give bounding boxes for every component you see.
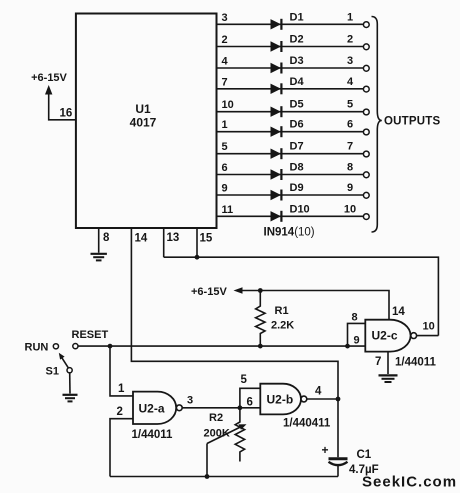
svg-text:9: 9 — [354, 335, 360, 347]
wire supply rail to U2-c pin 14 — [241, 291, 389, 320]
diode D4 — [271, 83, 282, 94]
ground (U2-c pin 7) — [379, 375, 398, 382]
svg-text:9: 9 — [347, 182, 353, 194]
wire bottom rail — [110, 476, 338, 478]
svg-text:D6: D6 — [290, 119, 304, 131]
ground (S1) — [63, 395, 78, 402]
wire RESET net to U2-c pin 9 — [78, 345, 347, 347]
potentiometer R2 — [235, 408, 244, 462]
junction R1 top — [258, 288, 263, 293]
outputs brace — [372, 17, 382, 233]
svg-text:D10: D10 — [290, 203, 310, 215]
wire C1 to bottom rail — [337, 466, 339, 477]
junction pin15/feedback — [195, 255, 200, 260]
wire U1 pin 6 to diode D8 and output 8 — [217, 174, 364, 176]
svg-text:15: 15 — [200, 233, 213, 245]
svg-text:5: 5 — [347, 99, 353, 111]
diode D9 — [271, 190, 282, 201]
svg-text:+6-15V: +6-15V — [191, 286, 227, 298]
wire U1 pin 11 to diode D10 and output 10 — [217, 215, 364, 217]
diode D5 — [271, 106, 282, 117]
output terminal circle 3 — [363, 65, 369, 71]
diode D8 — [271, 169, 282, 180]
svg-text:U1: U1 — [135, 102, 151, 116]
svg-text:2: 2 — [222, 34, 228, 46]
svg-text:8: 8 — [103, 232, 110, 244]
wire U2-c pin 10 output — [417, 335, 439, 337]
svg-text:6: 6 — [247, 397, 253, 409]
svg-text:11: 11 — [222, 204, 234, 216]
svg-text:16: 16 — [60, 108, 73, 120]
svg-text:8: 8 — [352, 312, 358, 324]
wire U1 pin 16 to supply — [49, 92, 76, 120]
svg-text:4: 4 — [347, 76, 354, 88]
svg-text:14: 14 — [392, 306, 405, 318]
diode D7 — [271, 148, 282, 159]
wire U1 pin 1 to diode D6 and output 6 — [217, 131, 364, 133]
svg-text:1/44011: 1/44011 — [132, 429, 174, 441]
power arrow (left) — [234, 287, 243, 294]
R2 wiper arrow — [207, 424, 247, 443]
diode D10 — [271, 211, 282, 222]
svg-text:4017: 4017 — [130, 116, 157, 130]
svg-text:7: 7 — [375, 356, 381, 368]
IC U1 4017 decade counter body — [76, 14, 217, 229]
wire U1 pin 7 to diode D4 and output 4 — [217, 88, 364, 90]
capacitor C1 (polarized) — [329, 459, 348, 465]
diode D2 — [271, 41, 282, 52]
svg-text:10: 10 — [222, 99, 234, 111]
svg-text:4: 4 — [222, 56, 229, 68]
output terminal circle 8 — [363, 172, 369, 178]
output terminal circle 4 — [363, 86, 369, 92]
U2-a output bubble — [176, 405, 182, 411]
output terminal circle 1 — [363, 22, 369, 28]
svg-text:IN914(10): IN914(10) — [264, 227, 315, 239]
svg-text:5: 5 — [222, 141, 228, 153]
svg-text:5: 5 — [241, 374, 248, 386]
wire U2-c pin 7 to ground — [387, 352, 389, 374]
svg-text:10: 10 — [423, 321, 435, 333]
svg-text:1: 1 — [222, 119, 228, 131]
output terminal circle 9 — [363, 192, 369, 198]
wire R2 wiper to bottom rail — [206, 444, 208, 477]
output terminal circle 2 — [363, 44, 369, 50]
junction R1 bottom — [258, 344, 263, 349]
wire U1 pin 2 to diode D2 and output 2 — [217, 46, 364, 48]
svg-text:1: 1 — [118, 383, 125, 395]
NAND gate U2-c body — [365, 320, 410, 352]
switch S1 lever with arrow — [59, 353, 69, 368]
svg-text:RUN: RUN — [25, 342, 49, 354]
svg-text:D9: D9 — [290, 182, 304, 194]
svg-text:D3: D3 — [290, 55, 304, 67]
svg-text:7: 7 — [347, 141, 353, 153]
svg-text:+: + — [322, 443, 329, 457]
svg-text:R1: R1 — [275, 305, 289, 317]
svg-text:S1: S1 — [46, 366, 59, 378]
junction RESET / U2-a pin 1 — [108, 344, 113, 349]
U2-b output bubble — [301, 396, 307, 402]
svg-text:1/44011: 1/44011 — [395, 357, 437, 369]
diode D6 — [271, 126, 282, 137]
wire U2-c pin 8 stub — [348, 323, 366, 346]
junction U2-b output / clock / C1 — [336, 397, 341, 402]
output terminal circle 5 — [363, 109, 369, 115]
wire U1 pin 10 to diode D5 and output 5 — [217, 111, 364, 113]
svg-text:+6-15V: +6-15V — [31, 72, 67, 84]
svg-text:RESET: RESET — [72, 329, 109, 341]
wire U2-b pin 4 output — [307, 398, 338, 400]
svg-text:1: 1 — [347, 11, 353, 23]
wire U2-a pin 3 output to R2 top — [182, 407, 240, 409]
svg-text:2: 2 — [117, 406, 123, 418]
svg-text:9: 9 — [222, 183, 228, 195]
diode D3 — [271, 63, 282, 74]
svg-text:D1: D1 — [290, 11, 304, 23]
svg-text:D7: D7 — [290, 141, 304, 153]
svg-text:U2-a: U2-a — [139, 402, 165, 416]
NAND gate U2-b body — [260, 384, 301, 415]
RUN terminal circle — [53, 344, 58, 349]
wire U2-b pin 5 stub — [240, 388, 260, 408]
svg-text:U2-b: U2-b — [267, 393, 294, 407]
wire U1 pin 8 to ground — [98, 228, 100, 253]
svg-text:2.2K: 2.2K — [271, 320, 294, 332]
svg-text:2: 2 — [347, 34, 353, 46]
wire S1 to ground — [69, 373, 71, 394]
svg-text:10: 10 — [344, 203, 356, 215]
wire U1 pin 15 down — [196, 228, 198, 257]
svg-text:3: 3 — [222, 12, 228, 24]
junction U2-a output / R2 / U2-b inputs — [238, 405, 243, 410]
svg-text:13: 13 — [167, 232, 180, 244]
svg-text:3: 3 — [187, 395, 193, 407]
svg-text:D2: D2 — [290, 34, 304, 46]
wire U1 pin 3 to diode D1 and output 1 — [217, 23, 364, 25]
svg-text:D5: D5 — [290, 99, 304, 111]
NAND gate U2-a body — [133, 392, 176, 424]
svg-text:6: 6 — [347, 119, 353, 131]
wire U2-a pin 2 to bottom rail — [110, 419, 133, 477]
output terminal circle 7 — [363, 151, 369, 157]
svg-text:1/440411: 1/440411 — [283, 418, 331, 430]
junction R2 wiper / bottom rail — [205, 474, 210, 479]
svg-text:R2: R2 — [209, 412, 223, 424]
junction U2-c pin 9 — [345, 344, 350, 349]
svg-text:200K: 200K — [204, 428, 230, 440]
svg-text:C1: C1 — [357, 449, 372, 461]
resistor R1 — [256, 291, 265, 347]
svg-text:U2-c: U2-c — [372, 329, 398, 343]
switch S1 pole circle — [67, 368, 72, 373]
wire clock net: U1 pin 14 to U2-b output — [131, 228, 338, 399]
wire U2-b output to C1 — [337, 399, 339, 457]
wire RESET junction to U2-a pin 1 — [110, 346, 133, 396]
output terminal circle 10 — [363, 214, 369, 220]
wire U1 pin 9 to diode D9 and output 9 — [217, 194, 364, 196]
svg-text:D8: D8 — [290, 162, 304, 174]
output terminal circle 6 — [363, 129, 369, 135]
ground (U1 pin 8) — [91, 254, 107, 261]
wire U1 pin 5 to diode D7 and output 7 — [217, 153, 364, 155]
svg-text:SeekIC.com: SeekIC.com — [362, 474, 457, 491]
svg-text:OUTPUTS: OUTPUTS — [384, 116, 440, 128]
svg-text:14: 14 — [135, 233, 148, 245]
U2-c output bubble — [411, 333, 417, 339]
svg-text:7: 7 — [222, 76, 228, 88]
svg-text:3: 3 — [347, 55, 353, 67]
diode D1 — [271, 19, 282, 30]
power +6-15V arrow (up) — [45, 85, 52, 95]
svg-text:6: 6 — [222, 162, 228, 174]
svg-text:4: 4 — [315, 386, 322, 398]
svg-text:D4: D4 — [290, 76, 305, 88]
RESET terminal circle — [73, 344, 78, 349]
wire U1 pin 4 to diode D3 and output 3 — [217, 67, 364, 69]
wire U2-b pin 6 stub — [240, 407, 260, 409]
wire U1 pin 13 down — [163, 228, 165, 257]
wire reset feedback net: pins 13/15 to U2-c output — [164, 257, 439, 335]
svg-text:8: 8 — [347, 162, 353, 174]
